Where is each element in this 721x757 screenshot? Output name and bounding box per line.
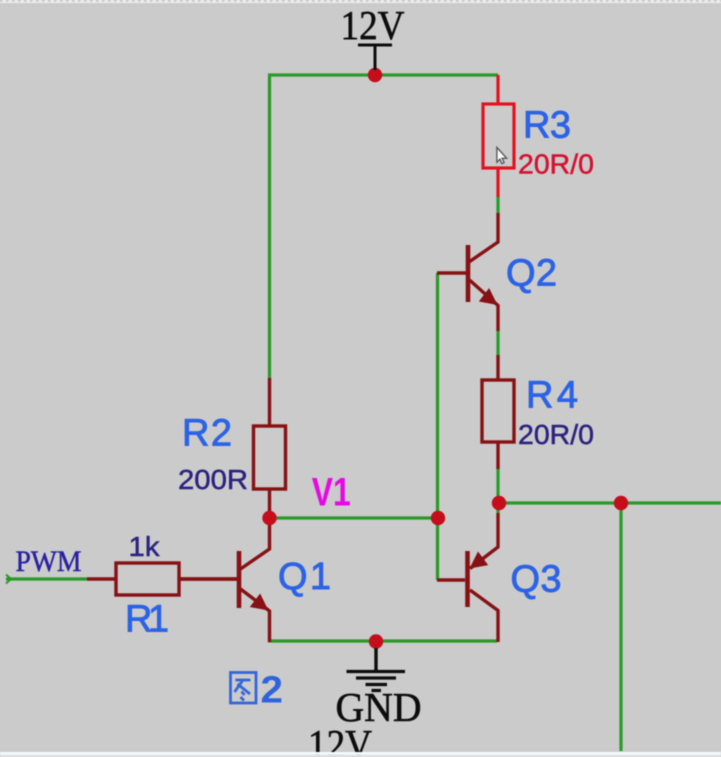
svg-text:Q2: Q2 [506, 253, 557, 295]
svg-text:R1: R1 [125, 599, 169, 641]
svg-text:R4: R4 [526, 375, 578, 417]
svg-text:1k: 1k [129, 531, 161, 562]
svg-text:Q3: Q3 [511, 559, 562, 601]
svg-text:12V: 12V [308, 721, 372, 757]
svg-text:20R/0: 20R/0 [518, 149, 594, 180]
svg-text:Q1: Q1 [278, 556, 331, 598]
svg-text:12V: 12V [341, 2, 405, 48]
svg-text:PWM: PWM [16, 545, 82, 578]
svg-text:2: 2 [261, 670, 284, 712]
svg-text:V1: V1 [312, 471, 351, 515]
svg-text:200R: 200R [178, 464, 248, 495]
svg-text:R2: R2 [182, 412, 232, 454]
svg-text:R3: R3 [523, 105, 571, 147]
svg-text:20R/0: 20R/0 [518, 419, 594, 450]
